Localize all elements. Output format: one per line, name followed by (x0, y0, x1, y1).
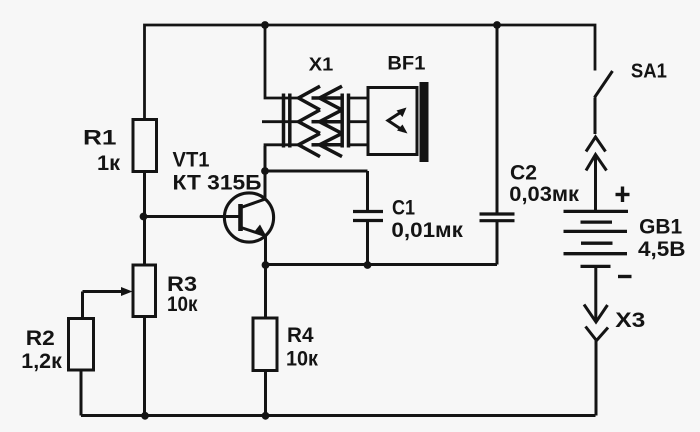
wire X1 rail top (265, 25, 299, 98)
plus sign (616, 187, 630, 203)
battery GB1 (564, 211, 629, 266)
svg-text:X1: X1 (309, 54, 334, 75)
X1 fork row3 (299, 133, 321, 156)
svg-text:VT1: VT1 (173, 148, 210, 172)
X1 pin arrow row1 (312, 86, 343, 110)
wire battery minus to X3 (594, 266, 597, 320)
svg-text:0,03мк: 0,03мк (509, 182, 579, 206)
transistor VT1 (224, 193, 273, 242)
node collector junction (261, 167, 269, 175)
connector X3 pin arrow down (584, 305, 608, 323)
wire R1 bottom to base junction to R3 (143, 172, 146, 266)
wire emitter down (264, 236, 267, 266)
wire stubs to BF1 (349, 97, 369, 100)
svg-text:1,2к: 1,2к (21, 349, 62, 373)
wire top rail (145, 25, 596, 119)
svg-text:10к: 10к (167, 292, 198, 316)
node top junction C2 (493, 21, 501, 29)
svg-text:4,5В: 4,5В (638, 237, 686, 261)
wire emitter line (266, 263, 498, 266)
connector X2 socket (586, 137, 606, 152)
resistor R1 (133, 120, 157, 172)
svg-text:C1: C1 (392, 196, 415, 220)
node C1 bottom junction (364, 261, 372, 269)
resistor R4 (253, 265, 277, 416)
svg-text:R2: R2 (26, 326, 55, 350)
node top junction X1 rail (261, 21, 269, 29)
wire X1 bottom stub (265, 145, 299, 146)
node bottom junction R4 (262, 412, 270, 420)
node base junction (140, 213, 148, 221)
node bottom junction R3 (141, 412, 149, 420)
node emitter junction (262, 261, 270, 269)
wire base (144, 215, 239, 218)
connector X2 pin arrow (586, 155, 607, 212)
X1 left bars (282, 94, 286, 148)
X1 right bars (340, 94, 344, 148)
earphone BF1 (368, 82, 429, 162)
connector X1 (262, 25, 349, 157)
switch SA1 (595, 71, 613, 134)
svg-text:BF1: BF1 (387, 53, 425, 74)
svg-text:C2: C2 (510, 160, 537, 184)
wire X1 middle stub (262, 120, 299, 123)
resistor R3 potentiometer (83, 265, 156, 416)
svg-text:GB1: GB1 (639, 215, 682, 239)
svg-text:X3: X3 (615, 309, 645, 332)
X1 fork row1 (299, 86, 321, 110)
svg-text:10к: 10к (286, 347, 318, 371)
wire bottom rail (81, 414, 596, 417)
connector X3 socket (586, 327, 609, 416)
capacitor C1 (353, 171, 383, 265)
capacitor C2 (480, 25, 515, 265)
svg-text:SA1: SA1 (631, 59, 667, 82)
wire collector to C1 top (265, 170, 368, 173)
X1 pin arrow row2 (312, 110, 343, 133)
svg-text:R4: R4 (287, 323, 314, 347)
wire collector rail (264, 146, 267, 199)
svg-text:0,01мк: 0,01мк (391, 218, 463, 242)
X1 fork row2 (299, 110, 321, 133)
X1 pin arrow row3 (312, 133, 343, 156)
svg-text:R1: R1 (83, 126, 117, 150)
svg-text:1к: 1к (97, 151, 120, 175)
minus sign (618, 275, 632, 278)
svg-text:КТ 315Б: КТ 315Б (173, 171, 262, 195)
resistor R2 (69, 319, 94, 416)
